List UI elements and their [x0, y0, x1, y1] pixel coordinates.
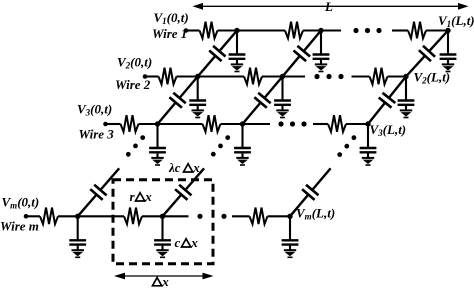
svg-text:Wire 1: Wire 1 — [152, 26, 187, 41]
svg-text:L: L — [324, 0, 333, 14]
svg-text:x: x — [144, 189, 152, 204]
svg-text:c: c — [175, 235, 181, 250]
svg-text:Wire 2: Wire 2 — [115, 77, 151, 92]
svg-text:x: x — [192, 160, 200, 175]
svg-text:V2(0,t): V2(0,t) — [117, 55, 152, 71]
svg-text:Wire 3: Wire 3 — [79, 127, 115, 142]
svg-text:λc: λc — [168, 160, 181, 175]
svg-text:V3(0,t): V3(0,t) — [77, 102, 112, 118]
svg-text:V1(0,t): V1(0,t) — [154, 10, 189, 26]
svg-text:V1(L,t): V1(L,t) — [438, 13, 474, 29]
svg-text:Vm(L,t): Vm(L,t) — [296, 206, 335, 222]
svg-text:V3(L,t): V3(L,t) — [370, 122, 407, 138]
svg-text:V2(L,t): V2(L,t) — [414, 70, 451, 86]
svg-text:Vm(0,t): Vm(0,t) — [2, 195, 40, 211]
svg-text:Wire m: Wire m — [0, 219, 39, 234]
svg-text:x: x — [190, 235, 198, 250]
svg-text:x: x — [161, 274, 169, 287]
